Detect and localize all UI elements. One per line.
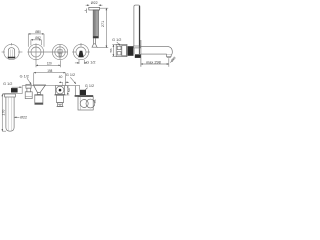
detail head top plate — [89, 7, 100, 10]
side view holder dark bracket — [135, 54, 141, 58]
dimension max 298 line — [141, 63, 169, 65]
spout holder dark square — [80, 90, 86, 95]
in-wall valve dark block — [128, 46, 134, 56]
dimension 198 left extension — [33, 73, 35, 86]
valve B inner circle — [31, 47, 41, 57]
dimension Ø42 extension line right — [40, 40, 42, 45]
dimension Ø42 line — [31, 39, 41, 41]
dimension max 298 right extension — [168, 58, 170, 67]
valve bottom tee detail — [57, 104, 64, 106]
in-wall valve center column — [122, 45, 127, 55]
handle D right centerline tick — [86, 51, 90, 53]
dimension 120 extension line right (below valve C) — [59, 60, 61, 67]
svg-text:Ø42: Ø42 — [35, 36, 41, 40]
dimension 198 right extension — [64, 73, 66, 86]
handle D outer circle — [73, 44, 88, 59]
valve body below (top view) — [57, 95, 64, 102]
wall line left segment (top view) — [22, 85, 55, 87]
detail head left bracket — [85, 9, 87, 14]
handle D inner circle — [76, 47, 86, 57]
valve lower portion (top view) — [58, 103, 63, 107]
handle flange line — [34, 94, 43, 96]
dimension 120 line — [36, 64, 60, 66]
holder wall connection line — [21, 86, 23, 94]
top view G 1/2 inlet leader — [27, 78, 31, 84]
valve C center spout detail lower stem — [59, 53, 61, 56]
dimension Ø42 extension line left — [30, 40, 32, 45]
holder sides through spout tube — [134, 48, 140, 54]
knob A arch symbol — [8, 48, 14, 58]
valve depth extension ticks — [65, 85, 69, 87]
dimension 40 extension ticks — [62, 82, 64, 85]
svg-text:170: 170 — [2, 109, 6, 115]
knob A outer circle — [4, 44, 19, 59]
svg-text:120: 120 — [47, 61, 52, 65]
detail wand Ø22 dimension arrows — [86, 4, 90, 6]
svg-text:G 1/2: G 1/2 — [66, 73, 75, 77]
knob A right centerline tick — [18, 51, 22, 53]
valve B outer circle — [28, 44, 43, 59]
dimension 170 line — [1, 94, 3, 131]
wall line right segment (top view) — [65, 85, 80, 87]
dimension G 1/2 below handle D extension right — [83, 60, 85, 64]
side view wand dark right edge — [138, 6, 140, 54]
dimension G 1/2 below handle D arrows — [75, 62, 79, 64]
inlet fitting box 3 inner line — [25, 95, 32, 97]
svg-text:Ø80: Ø80 — [35, 30, 41, 34]
svg-text:40: 40 — [59, 75, 63, 79]
valve B horizontal centerline (extends to valve C) — [27, 51, 67, 53]
in-wall valve cartridge lower box — [117, 52, 121, 55]
svg-text:Ø22: Ø22 — [91, 1, 98, 5]
valve B vertical centerline — [35, 43, 37, 60]
valve body depth dimension line — [112, 45, 114, 57]
spout circle left (top view) — [80, 100, 88, 108]
dimension Ø22 arrow (wand diameter) — [14, 116, 19, 118]
svg-text:50: 50 — [67, 88, 71, 93]
handle escutcheon (top view) — [35, 95, 43, 104]
dimension 271 line — [105, 8, 107, 47]
top view G 1/2 pipe leader — [70, 77, 76, 84]
in-wall valve body outline — [116, 44, 127, 56]
handle D top centerline tick — [80, 43, 82, 46]
spout outlet dark bottom — [167, 56, 171, 58]
top view G 1/2 leader (far left) — [12, 86, 22, 88]
inlet fitting box 1 — [26, 84, 31, 88]
dimension Ø80 line — [28, 33, 44, 35]
dimension 170 bottom extension — [2, 130, 6, 132]
svg-text:max 298: max 298 — [146, 60, 161, 64]
valve body depth dimension extension lines — [112, 44, 116, 46]
dimension Ø80 extension line right — [43, 34, 45, 47]
svg-text:271: 271 — [101, 21, 105, 28]
side view hand shower wand — [134, 5, 140, 46]
spout escutcheon inner line — [79, 97, 81, 110]
detail wand inner dark line — [94, 10, 96, 37]
hand shower top cap (top view) — [5, 94, 16, 97]
dimension 40 arrows — [59, 81, 63, 83]
detail wand dark bottom cap — [93, 36, 98, 38]
valve C center spout detail upper box — [58, 50, 62, 53]
dimension 170 top extension — [2, 93, 5, 95]
spout outlet seam — [167, 53, 172, 55]
valve C vertical centerline — [59, 45, 61, 60]
svg-text:G 1/2: G 1/2 — [86, 61, 95, 65]
top view G 1/2 spout leader — [85, 88, 87, 90]
knob A top centerline tick — [11, 43, 13, 45]
holder inlet dark fitting — [11, 88, 18, 92]
valve circle (top view) — [56, 86, 64, 94]
spout circle right (top view) — [86, 99, 95, 108]
knob A inner arch lines — [10, 50, 12, 58]
svg-text:G 1/2: G 1/2 — [3, 82, 12, 86]
knob A left centerline tick — [2, 51, 5, 53]
hand shower wand inner lines — [8, 97, 12, 130]
detail wand head flare — [92, 44, 97, 47]
handle D left centerline tick — [72, 51, 76, 53]
wall flange line — [140, 40, 142, 67]
dimension 120 extension line left (below valve B) — [35, 60, 37, 67]
side view G 1/2 leader — [117, 42, 121, 46]
dimension 198 line — [34, 72, 66, 74]
svg-text:G 1/2: G 1/2 — [85, 84, 94, 88]
dimension 271 top extension line — [100, 7, 108, 9]
valve depth dimension line (top view) — [67, 86, 69, 95]
svg-text:G 1/2: G 1/2 — [20, 74, 29, 78]
side view wand holder joint — [134, 46, 141, 48]
tub spout outline — [141, 46, 172, 57]
spout aerator leader — [170, 58, 174, 63]
handle escutcheon dark bottom band — [35, 103, 43, 105]
dimension Ø80 extension line left — [27, 34, 29, 47]
handle stem (top view) — [37, 92, 40, 94]
hand shower wand hanging (top view) — [6, 97, 14, 131]
inlet fitting box 2 — [27, 88, 31, 92]
valve center dark dot — [59, 89, 62, 92]
inlet fitting box 3 — [25, 92, 32, 99]
holder plate top line — [3, 93, 23, 95]
dimension 271 bottom extension line — [97, 47, 108, 49]
spout escutcheon rect (top view) — [78, 97, 93, 110]
detail wand head neck — [94, 38, 96, 44]
detail wand body (gray bar) — [93, 10, 98, 38]
valve C outer circle — [52, 44, 67, 59]
in-wall valve cartridge upper box — [117, 46, 121, 49]
svg-text:Ø22: Ø22 — [20, 116, 27, 120]
dimension G 1/2 below handle D extension left — [78, 60, 80, 64]
svg-text:55: 55 — [109, 48, 113, 53]
svg-text:G 1/2: G 1/2 — [112, 38, 121, 42]
valve C inner circle — [55, 47, 65, 57]
valve flange line (top view) — [54, 94, 65, 96]
handle D dark lever — [78, 51, 83, 58]
spout flange dark bar — [75, 95, 94, 97]
handle lever cone (top view) — [33, 85, 45, 92]
spout pipe lines (top view) — [74, 86, 76, 96]
valve square (top view) — [55, 86, 64, 95]
knob A dark base bar — [8, 57, 16, 59]
